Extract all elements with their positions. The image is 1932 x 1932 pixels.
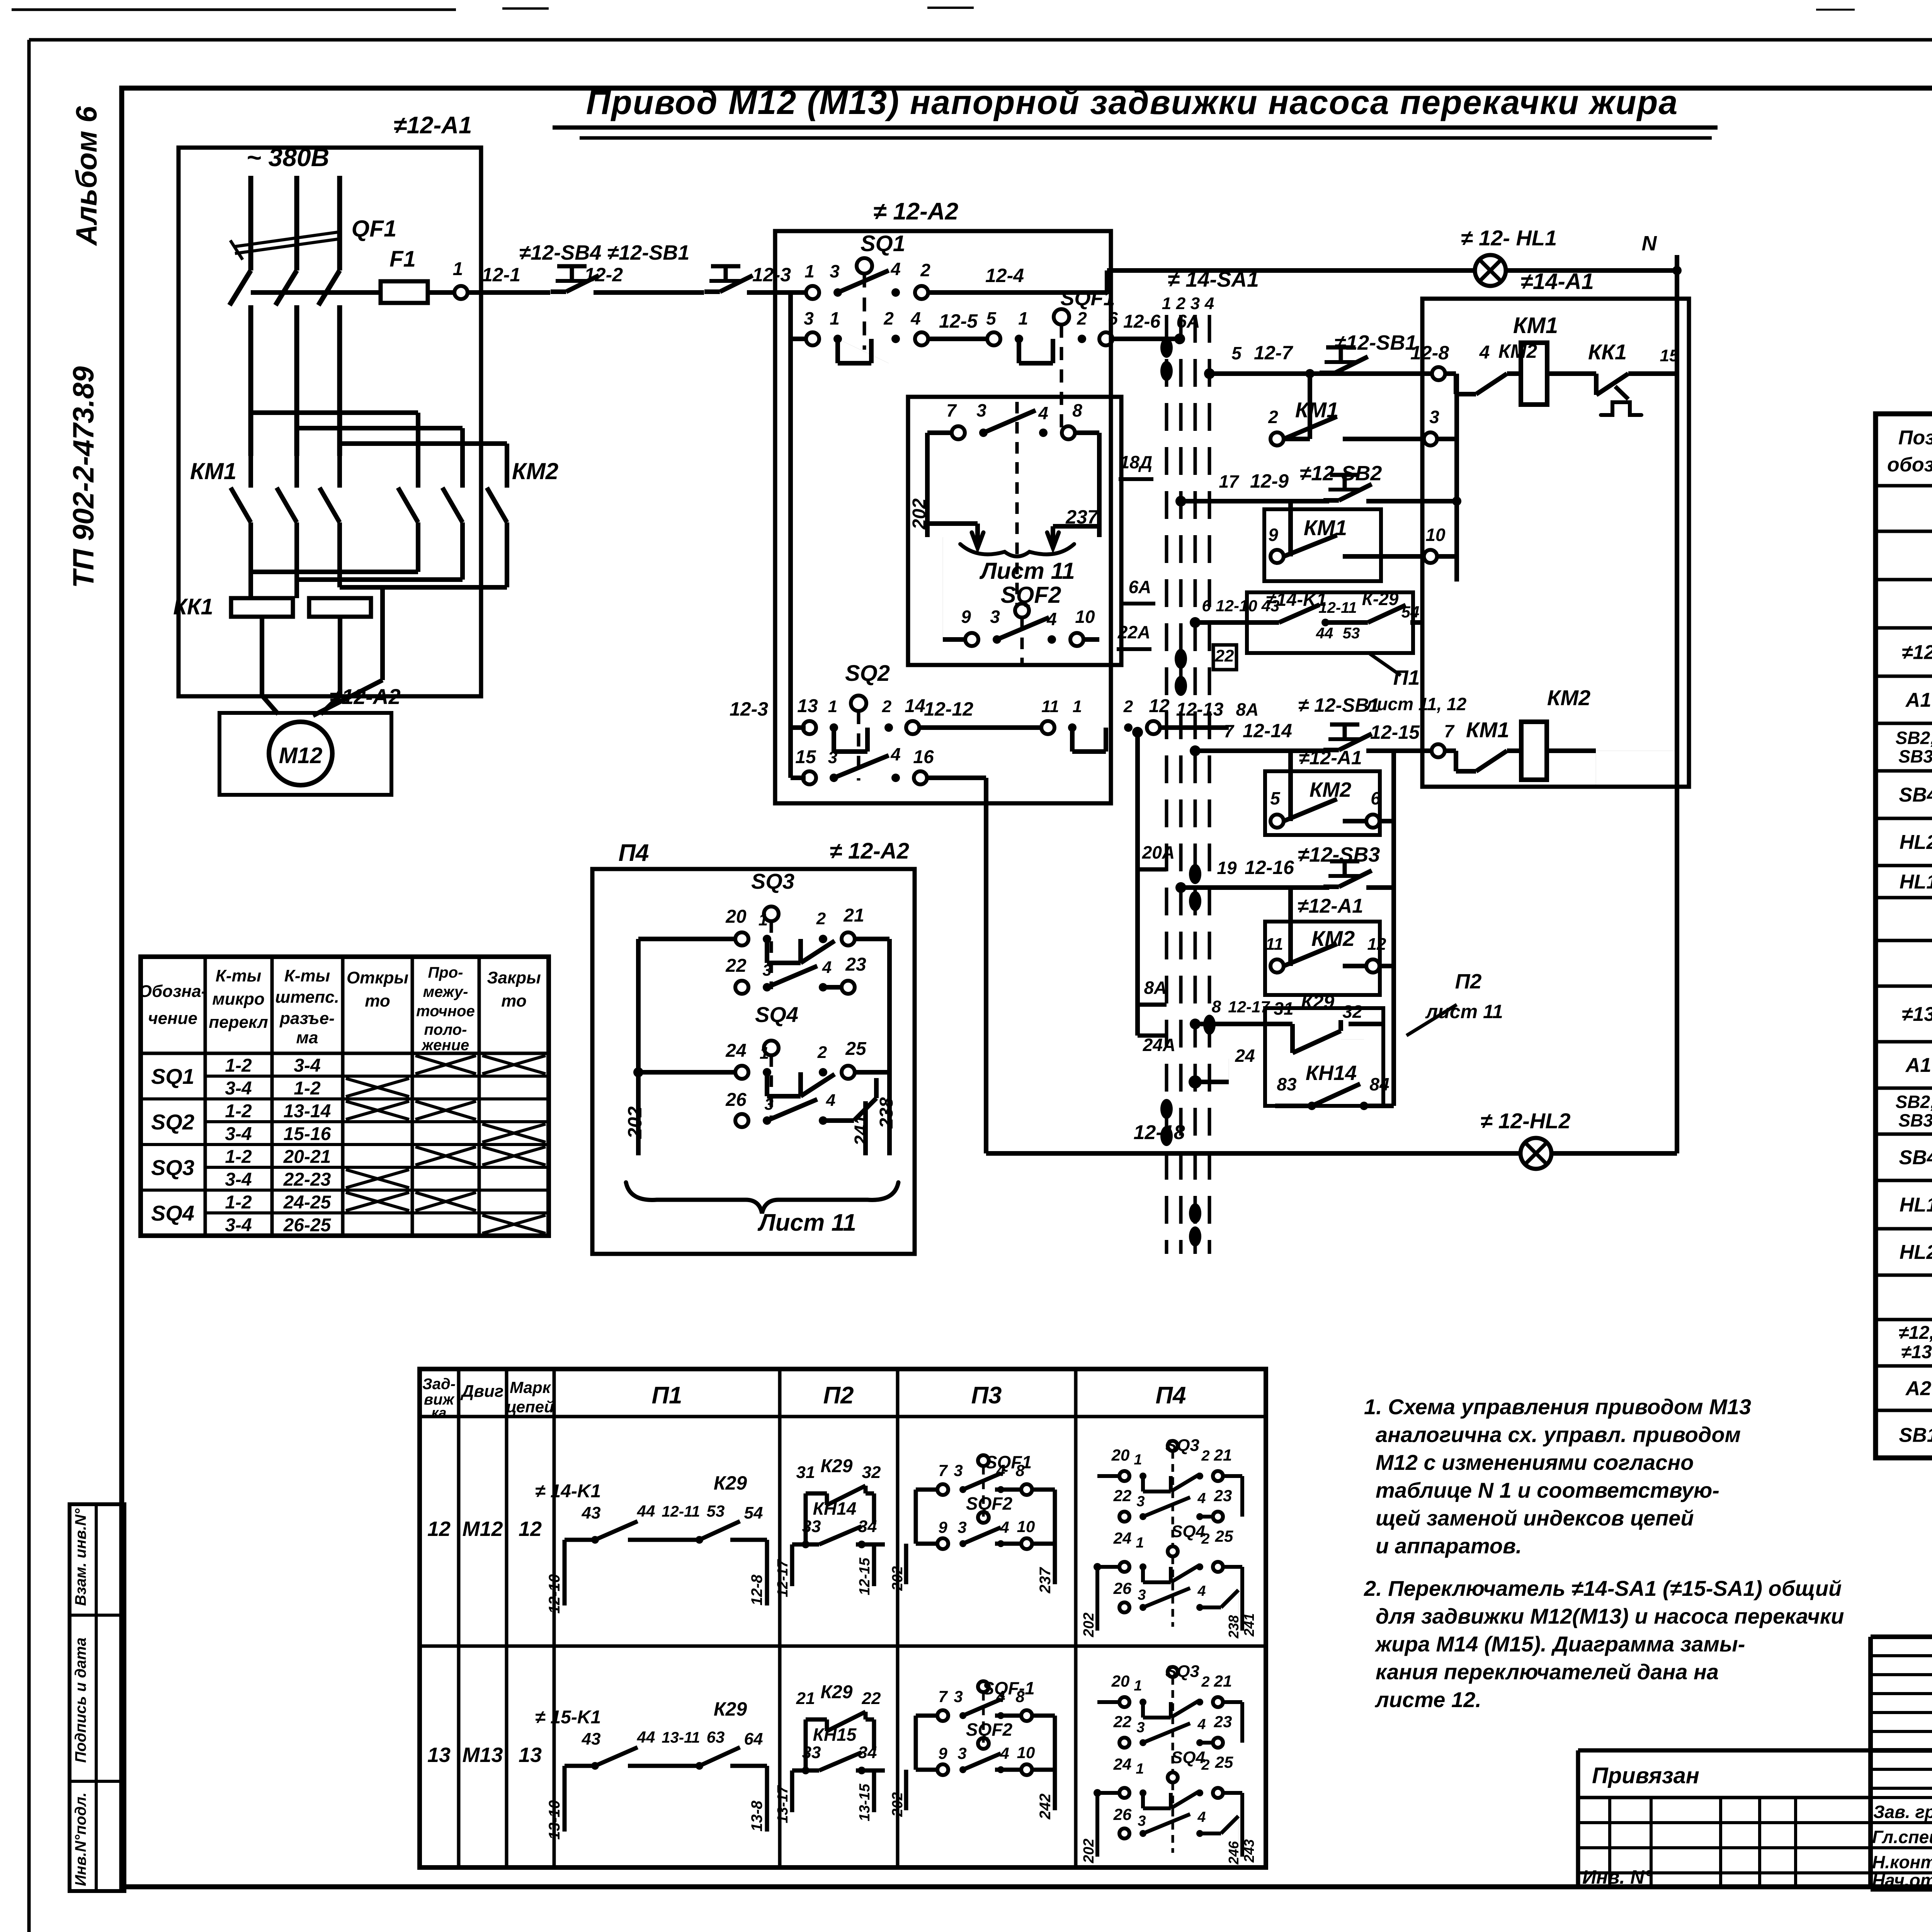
svg-text:лист 11, 12: лист 11, 12 [1365,694,1467,714]
svg-text:разъе-: разъе- [279,1009,335,1028]
svg-text:SB3: SB3 [1898,1111,1932,1131]
svg-text:2: 2 [1176,294,1186,313]
svg-text:≠12-SB1: ≠12-SB1 [607,241,690,264]
svg-text:П1: П1 [1393,666,1420,689]
svg-text:SQ1: SQ1 [151,1064,194,1088]
svg-text:5: 5 [986,308,997,328]
svg-text:1: 1 [828,697,837,716]
svg-text:13-8: 13-8 [748,1800,765,1832]
svg-text:12: 12 [427,1517,451,1541]
svg-text:6А: 6А [1129,577,1151,597]
svg-text:КК1: КК1 [1588,340,1627,364]
svg-text:22А: 22А [1117,622,1150,642]
svg-text:1: 1 [1134,1452,1142,1468]
svg-text:поло-: поло- [424,1021,467,1038]
svg-text:КМ1: КМ1 [1513,313,1558,338]
svg-text:11: 11 [1265,935,1283,954]
svg-text:13-11: 13-11 [662,1729,700,1746]
svg-text:12-10: 12-10 [1216,597,1257,615]
svg-text:12-17: 12-17 [1228,998,1270,1016]
svg-text:П1: П1 [651,1382,682,1409]
svg-text:4: 4 [1204,294,1214,313]
svg-text:237: 237 [1037,1567,1054,1594]
svg-text:8А: 8А [1144,978,1167,998]
svg-text:аналогична сх. управл. прив: аналогична сх. управл. приводом [1376,1422,1741,1447]
svg-text:10: 10 [1017,1743,1035,1762]
svg-text:Поз.: Поз. [1898,427,1932,449]
svg-text:КМ1: КМ1 [1466,718,1509,742]
svg-text:3: 3 [957,1518,966,1536]
svg-text:3: 3 [976,400,986,420]
svg-text:≠12-А1: ≠12-А1 [1299,747,1362,769]
svg-text:7: 7 [946,400,957,420]
svg-text:лист 11: лист 11 [1425,1001,1503,1022]
svg-text:3: 3 [1429,407,1439,427]
svg-text:А1: А1 [1905,1054,1931,1077]
svg-text:≠12-А1: ≠12-А1 [1298,895,1363,917]
svg-text:цепей: цепей [506,1398,554,1416]
svg-text:11: 11 [1041,697,1059,716]
svg-text:Привод М12 (М13) напорной: Привод М12 (М13) напорной задвижки насос… [586,83,1679,121]
svg-text:4: 4 [1197,1809,1206,1825]
svg-text:18Д: 18Д [1120,452,1152,472]
svg-text:1: 1 [804,261,815,281]
svg-text:Привязан: Привязан [1592,1763,1699,1788]
svg-text:242: 242 [1037,1794,1054,1820]
svg-text:21: 21 [1214,1672,1232,1690]
svg-text:202: 202 [909,498,930,530]
svg-text:3-4: 3-4 [294,1056,320,1076]
svg-text:2: 2 [1123,697,1133,716]
svg-text:20: 20 [725,906,747,927]
svg-text:≠12-SB1: ≠12-SB1 [1335,331,1417,354]
svg-text:2: 2 [1268,407,1278,427]
svg-text:листе 12.: листе 12. [1374,1687,1481,1712]
svg-text:щей заменой индексов цепей: щей заменой индексов цепей [1376,1506,1694,1530]
svg-text:7: 7 [1224,721,1235,741]
svg-text:≠13: ≠13 [1901,1342,1932,1362]
svg-text:ТП 902-2-473.89: ТП 902-2-473.89 [67,366,100,588]
svg-text:43: 43 [1261,597,1280,615]
svg-text:6: 6 [1108,308,1118,328]
svg-text:КМ2: КМ2 [1547,685,1590,710]
svg-text:4: 4 [1000,1518,1009,1536]
svg-text:10: 10 [1017,1517,1035,1536]
svg-text:5: 5 [1270,788,1281,808]
svg-text:кания переключателей дана: кания переключателей дана на [1376,1660,1719,1684]
svg-text:Лист 11: Лист 11 [757,1209,856,1236]
svg-text:20: 20 [1111,1672,1130,1690]
svg-text:Подпись и дата: Подпись и дата [72,1638,89,1763]
svg-text:2: 2 [1201,1448,1209,1464]
svg-text:10: 10 [1075,607,1095,627]
svg-text:Зад-: Зад- [422,1376,456,1393]
svg-text:КМ2: КМ2 [1310,778,1351,801]
svg-text:≠12,: ≠12, [1898,1323,1932,1343]
svg-text:202: 202 [624,1106,646,1139]
svg-text:точное: точное [416,1003,475,1020]
svg-text:1-2: 1-2 [225,1192,252,1213]
svg-text:32: 32 [862,1463,881,1482]
svg-text:24: 24 [1113,1529,1132,1547]
svg-text:SQF1: SQF1 [1060,287,1115,310]
svg-text:~ 380В: ~ 380В [247,143,330,172]
svg-text:14: 14 [905,696,925,716]
svg-text:SQ1: SQ1 [861,231,905,256]
svg-text:КМ1: КМ1 [190,458,236,484]
svg-text:9: 9 [938,1744,947,1762]
svg-text:25: 25 [1215,1527,1233,1545]
svg-text:HL1: HL1 [1900,1194,1932,1216]
svg-text:М12: М12 [279,743,323,768]
svg-text:К-ты: К-ты [216,966,261,985]
svg-text:54: 54 [1401,603,1420,621]
svg-text:12-12: 12-12 [924,698,973,720]
svg-text:5: 5 [1231,343,1242,363]
svg-text:Зав. гр.: Зав. гр. [1873,1802,1932,1822]
svg-text:24: 24 [725,1041,746,1061]
svg-text:12: 12 [1367,935,1386,954]
svg-text:53: 53 [1343,625,1360,642]
svg-text:20А: 20А [1142,842,1175,862]
svg-text:≠ 12-А2: ≠ 12-А2 [830,838,909,864]
svg-text:22: 22 [1113,1486,1132,1505]
svg-text:≠ 15-K1: ≠ 15-K1 [535,1707,601,1728]
svg-text:КМ1: КМ1 [1304,515,1347,540]
svg-text:≠ 12-А2: ≠ 12-А2 [873,198,958,225]
svg-text:≠13: ≠13 [1902,1003,1932,1026]
svg-text:А2: А2 [1905,1378,1932,1400]
svg-text:3: 3 [830,261,840,281]
svg-text:4: 4 [822,958,832,977]
svg-text:П3: П3 [971,1382,1002,1409]
svg-text:12-5: 12-5 [939,310,978,332]
svg-text:М12: М12 [462,1517,503,1541]
svg-text:1-2: 1-2 [294,1078,321,1099]
svg-text:13-15: 13-15 [857,1784,873,1821]
svg-text:202: 202 [889,1566,906,1591]
svg-text:22: 22 [1215,646,1234,665]
svg-text:3-4: 3-4 [225,1078,252,1099]
svg-text:2: 2 [882,697,892,716]
svg-text:микро: микро [212,990,264,1009]
svg-text:К29: К29 [714,1698,747,1720]
svg-text:2: 2 [920,260,930,280]
svg-text:Лист 11: Лист 11 [979,558,1075,584]
svg-text:12-13: 12-13 [1176,699,1224,720]
svg-text:КН15: КН15 [813,1725,857,1745]
svg-text:Инв.N°подл.: Инв.N°подл. [72,1793,89,1886]
svg-text:20: 20 [1111,1446,1130,1464]
svg-text:3: 3 [1190,294,1200,313]
svg-text:23: 23 [845,954,866,975]
svg-text:то: то [501,992,526,1010]
svg-text:12-16: 12-16 [1245,857,1294,878]
svg-text:26-25: 26-25 [283,1215,332,1236]
svg-text:6: 6 [1371,788,1381,808]
svg-text:1-2: 1-2 [225,1147,252,1167]
svg-text:4: 4 [1197,1716,1206,1733]
svg-text:8: 8 [1015,1461,1025,1480]
svg-text:Взам. инв.N°: Взам. инв.N° [72,1508,89,1606]
svg-text:3: 3 [957,1744,966,1762]
svg-text:8: 8 [1072,400,1082,420]
svg-text:К-ты: К-ты [284,966,330,985]
svg-text:Гл.спец.: Гл.спец. [1872,1827,1932,1847]
svg-text:1-2: 1-2 [225,1101,252,1122]
svg-text:Инв. N°: Инв. N° [1582,1866,1652,1888]
svg-text:26: 26 [1113,1579,1132,1597]
svg-text:обозн.: обозн. [1887,454,1932,476]
svg-text:6: 6 [1202,597,1211,615]
svg-text:А1: А1 [1905,689,1931,711]
svg-text:HL1: HL1 [1900,871,1932,893]
svg-text:таблице N 1 и соответствую-: таблице N 1 и соответствую- [1376,1478,1719,1502]
svg-text:2: 2 [1201,1757,1209,1773]
svg-text:12-3: 12-3 [730,698,768,720]
svg-text:SB1: SB1 [1899,1424,1932,1447]
svg-text:Двиг: Двиг [460,1382,504,1401]
svg-text:246: 246 [1226,1841,1242,1865]
svg-text:4: 4 [1197,1490,1206,1507]
svg-text:202: 202 [1081,1612,1097,1637]
svg-text:12-8: 12-8 [1410,342,1449,364]
svg-text:SQF2: SQF2 [966,1719,1013,1740]
svg-text:ка: ка [432,1405,447,1420]
svg-text:SB2;: SB2; [1896,728,1932,748]
svg-text:SQ2: SQ2 [845,661,890,686]
svg-text:перекл: перекл [209,1013,268,1032]
svg-text:12-15: 12-15 [857,1558,873,1595]
svg-text:≠14-А1: ≠14-А1 [1520,269,1594,294]
svg-text:Закры: Закры [487,968,541,987]
svg-text:1: 1 [453,259,463,279]
svg-text:Н.контр: Н.контр [1872,1852,1932,1872]
svg-text:Марк: Марк [510,1378,551,1396]
svg-text:≠12-SB4: ≠12-SB4 [519,241,602,264]
svg-text:3: 3 [954,1461,963,1480]
svg-text:84: 84 [1369,1074,1389,1094]
svg-text:12-11: 12-11 [1318,599,1357,616]
svg-text:П2: П2 [823,1382,854,1409]
svg-text:3: 3 [954,1687,963,1706]
svg-text:2: 2 [1077,308,1087,328]
svg-text:П4: П4 [618,840,649,866]
svg-text:для задвижки М12(М13) и насоса: для задвижки М12(М13) и насоса перекачки [1376,1604,1844,1628]
svg-text:7: 7 [1444,721,1455,741]
svg-text:4: 4 [1197,1583,1206,1599]
svg-text:13-10: 13-10 [546,1800,563,1840]
svg-text:SQ2: SQ2 [151,1110,194,1134]
svg-text:≠12-А1: ≠12-А1 [394,112,472,139]
svg-text:F1: F1 [389,247,416,272]
svg-text:12-14: 12-14 [1243,720,1292,742]
svg-text:8: 8 [1015,1687,1025,1706]
svg-text:П2: П2 [1455,970,1482,993]
svg-text:24: 24 [1113,1755,1132,1773]
svg-text:17: 17 [1219,471,1240,492]
svg-text:то: то [365,992,390,1010]
svg-text:SQF2: SQF2 [1001,582,1061,608]
svg-text:4: 4 [890,744,901,764]
svg-text:3: 3 [1136,1493,1145,1510]
svg-text:22-23: 22-23 [283,1170,331,1190]
svg-text:13-17: 13-17 [775,1785,791,1823]
svg-text:4: 4 [1000,1744,1009,1762]
svg-text:КК1: КК1 [173,594,213,619]
svg-text:1: 1 [1134,1678,1142,1694]
svg-text:SQ4: SQ4 [1171,1748,1205,1767]
svg-text:К29: К29 [1301,991,1335,1013]
svg-text:Про-: Про- [428,964,463,981]
svg-text:2: 2 [817,1043,827,1062]
svg-text:3: 3 [1138,1813,1146,1829]
svg-text:SQ4: SQ4 [1171,1522,1205,1541]
svg-text:43: 43 [582,1730,601,1748]
svg-text:24: 24 [1235,1046,1255,1066]
svg-text:2: 2 [1201,1674,1209,1690]
svg-text:3-4: 3-4 [225,1124,252,1145]
svg-text:жение: жение [421,1037,469,1054]
svg-text:≠ 12- HL1: ≠ 12- HL1 [1461,226,1557,250]
svg-text:9: 9 [961,607,971,627]
svg-text:SQ4: SQ4 [755,1002,798,1027]
svg-text:1: 1 [1136,1535,1144,1551]
svg-text:20-21: 20-21 [283,1147,331,1167]
svg-text:15: 15 [1660,346,1679,365]
svg-text:12-9: 12-9 [1250,470,1289,492]
svg-text:54: 54 [744,1503,763,1522]
svg-text:12-15: 12-15 [1370,721,1420,743]
svg-text:241: 241 [1241,1613,1257,1637]
svg-text:7: 7 [938,1687,948,1706]
svg-text:К-29: К-29 [1362,589,1399,609]
svg-text:1: 1 [1018,308,1028,328]
svg-text:83: 83 [1277,1074,1297,1094]
svg-text:SB3: SB3 [1898,747,1932,767]
svg-text:8А: 8А [1236,699,1259,719]
svg-text:12-3: 12-3 [752,264,791,286]
svg-text:243: 243 [1241,1839,1257,1863]
svg-text:2: 2 [883,308,894,328]
svg-text:4: 4 [1479,342,1490,363]
svg-text:21: 21 [1214,1446,1232,1464]
svg-text:К29: К29 [821,1456,853,1476]
svg-text:≠ 14-K1: ≠ 14-K1 [535,1481,601,1502]
svg-text:1: 1 [760,1044,769,1063]
svg-text:25: 25 [1215,1753,1233,1771]
svg-text:4: 4 [1046,609,1057,629]
svg-text:24А: 24А [1143,1035,1175,1055]
svg-text:12-7: 12-7 [1254,342,1293,364]
svg-text:ма: ма [296,1028,318,1047]
svg-text:1: 1 [1136,1761,1144,1777]
svg-text:Нач.отд: Нач.отд [1872,1870,1932,1890]
svg-text:≠12-А2: ≠12-А2 [330,684,400,709]
svg-text:16: 16 [913,747,934,767]
svg-text:Альбом 6: Альбом 6 [70,106,103,246]
svg-text:19: 19 [1217,858,1237,878]
svg-text:64: 64 [744,1730,763,1748]
svg-text:9: 9 [938,1518,947,1536]
svg-text:7: 7 [938,1461,948,1480]
svg-text:3: 3 [1136,1719,1145,1736]
svg-text:3: 3 [828,748,837,767]
svg-text:13: 13 [797,696,818,716]
svg-text:12-18: 12-18 [1134,1121,1185,1144]
svg-text:13: 13 [427,1743,451,1767]
svg-text:12-4: 12-4 [985,265,1024,286]
svg-text:1: 1 [830,308,840,328]
svg-text:13: 13 [519,1743,542,1767]
svg-text:12-10: 12-10 [546,1574,563,1614]
svg-text:26: 26 [725,1090,747,1110]
svg-text:HL2: HL2 [1900,831,1932,854]
svg-text:3: 3 [804,308,814,328]
svg-text:КН14: КН14 [813,1498,857,1519]
svg-text:4: 4 [890,259,901,279]
svg-text:13-14: 13-14 [284,1101,331,1122]
svg-text:44: 44 [637,1502,655,1520]
svg-text:53: 53 [707,1502,725,1520]
svg-text:31: 31 [1274,998,1293,1019]
svg-text:12-17: 12-17 [775,1559,791,1597]
svg-text:3: 3 [990,607,1000,627]
svg-text:2: 2 [1201,1531,1209,1547]
svg-text:2. Переключатель ≠14-SA1 (≠15-: 2. Переключатель ≠14-SA1 (≠15-SA1) общий [1364,1576,1842,1600]
svg-text:43: 43 [582,1503,601,1522]
svg-text:1: 1 [1073,697,1082,716]
svg-text:SQF2: SQF2 [966,1493,1013,1514]
svg-text:Обозна-: Обозна- [139,982,207,1001]
svg-text:10: 10 [1425,525,1446,545]
svg-text:3: 3 [764,1095,773,1113]
svg-text:22: 22 [1113,1713,1132,1731]
svg-text:1. Схема управления приводом: 1. Схема управления приводом М13 [1364,1395,1751,1419]
svg-text:12-1: 12-1 [482,264,520,286]
svg-text:238: 238 [876,1097,897,1129]
svg-text:и аппаратов.: и аппаратов. [1376,1534,1522,1558]
svg-text:П4: П4 [1155,1382,1186,1409]
svg-text:4: 4 [1038,403,1048,423]
svg-text:8: 8 [1212,997,1221,1016]
svg-text:12-8: 12-8 [748,1574,765,1605]
svg-text:3: 3 [1138,1587,1146,1603]
svg-text:21: 21 [843,905,864,926]
svg-text:HL2: HL2 [1900,1241,1932,1264]
svg-text:QF1: QF1 [352,216,397,241]
svg-text:44: 44 [1316,625,1333,642]
svg-text:63: 63 [707,1728,725,1746]
svg-text:КН14: КН14 [1306,1061,1357,1085]
svg-text:24-25: 24-25 [283,1192,332,1213]
svg-text:SB4: SB4 [1899,784,1932,806]
svg-text:SQ4: SQ4 [151,1201,194,1225]
svg-text:Откры: Откры [347,968,408,987]
svg-text:N: N [1642,232,1657,255]
svg-text:31: 31 [796,1463,815,1482]
svg-text:SQF1: SQF1 [985,1452,1032,1472]
svg-text:4: 4 [826,1091,835,1110]
svg-text:КМ2: КМ2 [512,458,558,484]
svg-text:12: 12 [519,1517,542,1541]
svg-text:15-16: 15-16 [284,1124,331,1145]
svg-text:К29: К29 [821,1682,853,1702]
svg-text:25: 25 [845,1039,867,1059]
svg-text:М12 с изменениями согласно: М12 с изменениями согласно [1376,1450,1694,1475]
svg-text:22: 22 [725,956,747,976]
svg-text:23: 23 [1214,1486,1232,1505]
